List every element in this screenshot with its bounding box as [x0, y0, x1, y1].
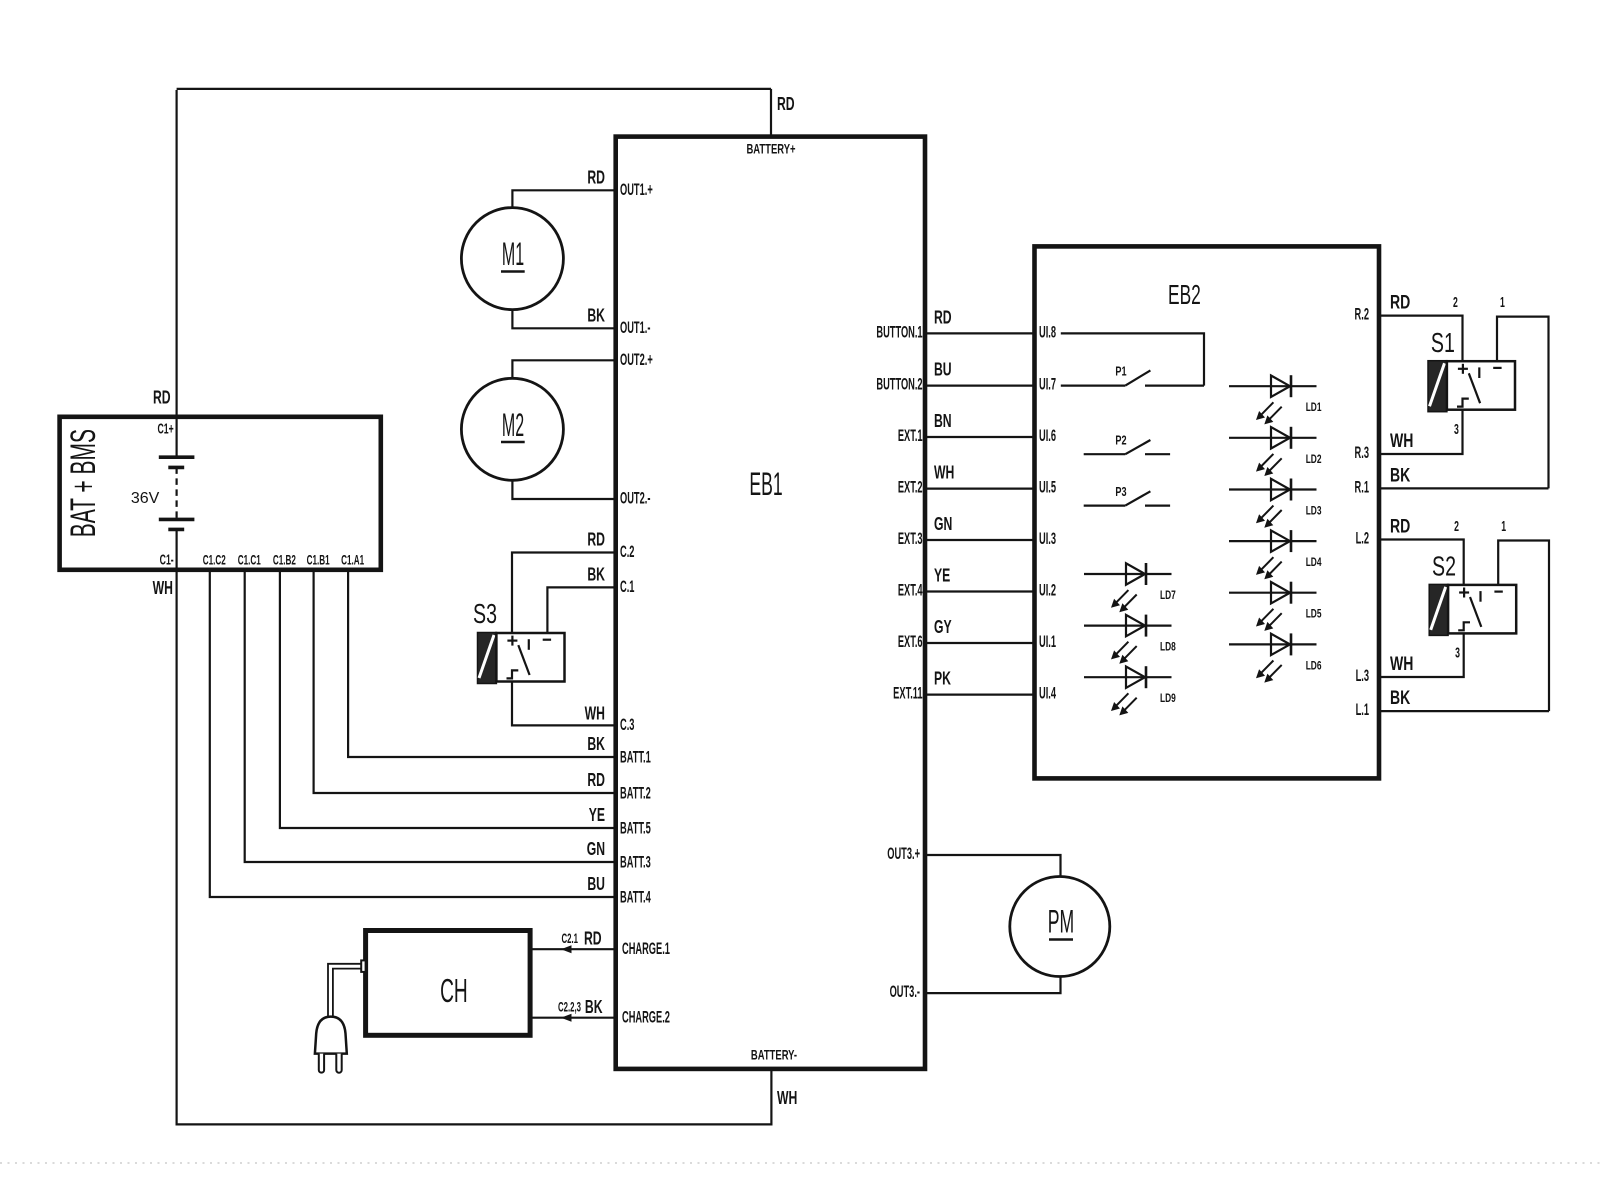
svg-text:LD5: LD5	[1306, 607, 1322, 621]
svg-text:R.1: R.1	[1355, 478, 1369, 496]
pin label L.3	[1356, 666, 1369, 684]
pin label BATTERY-	[751, 1048, 797, 1063]
LED LD1	[1229, 375, 1322, 424]
label GY EXT.6	[934, 618, 952, 638]
svg-text:LD3: LD3	[1306, 504, 1322, 518]
wire top rail RD horizontal	[177, 88, 771, 90]
pin label CHARGE.1	[622, 939, 670, 957]
label EB2	[1168, 279, 1201, 310]
label PK EXT.11	[934, 669, 951, 689]
wire OUT1+ RD to M1	[512, 190, 615, 208]
label RD top rail	[777, 95, 795, 115]
wire R.3 WH	[1379, 410, 1463, 454]
svg-text:L.3: L.3	[1356, 666, 1369, 684]
pin label C.1	[620, 577, 634, 595]
label S3	[473, 598, 497, 629]
pin label UI.6	[1039, 426, 1056, 444]
svg-text:EXT.1: EXT.1	[898, 426, 923, 444]
label BN EXT.1	[934, 412, 952, 432]
pin label OUT2.+	[620, 350, 653, 368]
label BK OUT1-	[587, 306, 605, 326]
battery box BAT+BMS	[60, 417, 381, 570]
pin label OUT3.+	[887, 844, 920, 862]
svg-text:P2: P2	[1115, 434, 1126, 448]
pin label L.2	[1356, 529, 1369, 547]
svg-text:CHARGE.1: CHARGE.1	[622, 939, 670, 957]
svg-text:CHARGE.2: CHARGE.2	[622, 1008, 670, 1026]
LED LD7	[1084, 563, 1176, 612]
motor M2	[461, 378, 563, 480]
wire EXT.2 to UI.5 (WH)	[925, 488, 1035, 490]
label CH	[440, 973, 468, 1010]
svg-text:EB1: EB1	[749, 468, 782, 503]
switch S2 body	[1429, 584, 1516, 635]
svg-text:3: 3	[1455, 644, 1460, 661]
wire L.3 WH	[1379, 633, 1464, 677]
wire BUTTON.2 to UI.7 (BU)	[925, 385, 1035, 387]
LED LD3	[1229, 479, 1322, 528]
wire C.1 BK to S3 -	[547, 587, 615, 633]
svg-text:C1.C1: C1.C1	[238, 553, 261, 568]
svg-text:C1-: C1-	[160, 551, 174, 568]
svg-text:OUT1.+: OUT1.+	[620, 180, 653, 198]
label WH C.3	[585, 704, 605, 724]
svg-text:S3: S3	[473, 598, 497, 629]
label RD BATT.2	[587, 771, 605, 791]
label BAT + BMS (rotated)	[65, 429, 104, 537]
label RD BUTTON.1	[934, 308, 952, 328]
wire OUT1- BK from M1	[512, 309, 615, 329]
label YE BATT.5	[589, 806, 605, 826]
label RD C.2	[587, 530, 605, 550]
svg-text:36V: 36V	[131, 490, 160, 507]
svg-text:UI.7: UI.7	[1039, 375, 1056, 393]
battery cell symbol 36V	[159, 417, 195, 570]
svg-text:BU: BU	[587, 875, 605, 895]
pin label EXT.6	[898, 632, 923, 650]
svg-text:RD: RD	[584, 929, 602, 949]
svg-text:BATTERY-: BATTERY-	[751, 1048, 797, 1063]
wire pin1 L.	[1498, 541, 1549, 712]
wire top rail drop into EB1 BATTERY+	[770, 89, 772, 137]
svg-text:EXT.6: EXT.6	[898, 632, 923, 650]
svg-text:UI.3: UI.3	[1039, 529, 1056, 547]
label BK CHARGE.2	[585, 998, 603, 1018]
pin label BATT.3	[620, 853, 651, 871]
svg-text:PM: PM	[1048, 905, 1074, 940]
label EB1	[749, 468, 782, 503]
svg-text:C2.2,3: C2.2,3	[558, 1001, 581, 1016]
pin label R.1	[1355, 478, 1369, 496]
pin label BATTERY+	[746, 142, 795, 157]
label BU BATT.4	[587, 875, 605, 895]
svg-text:BATTERY+: BATTERY+	[746, 142, 795, 157]
pin label UI.3	[1039, 529, 1056, 547]
label S1	[1431, 328, 1455, 359]
label RD R.2	[1390, 291, 1410, 313]
svg-text:GN: GN	[587, 840, 605, 860]
motor M1	[461, 208, 563, 310]
svg-text:RD: RD	[934, 308, 952, 328]
svg-text:RD: RD	[1390, 515, 1410, 537]
decorative page rule	[0, 1162, 1600, 1164]
display box EB2	[1035, 246, 1380, 778]
svg-text:PK: PK	[934, 669, 951, 689]
svg-text:P1: P1	[1115, 365, 1126, 379]
plug connector stub	[361, 960, 365, 972]
pin label BATT.5	[620, 819, 651, 837]
wire BATT.1 BK from battery	[348, 570, 616, 757]
svg-text:EXT.4: EXT.4	[898, 581, 923, 599]
svg-text:OUT1.-: OUT1.-	[620, 318, 650, 336]
label RD at battery C1+	[153, 388, 171, 408]
svg-text:LD8: LD8	[1160, 640, 1176, 654]
label GN EXT.3	[934, 515, 952, 535]
pin label C1-	[160, 551, 174, 568]
svg-text:BK: BK	[1390, 464, 1411, 486]
pin label UI.8	[1039, 323, 1056, 341]
pin label UI.1	[1039, 632, 1056, 650]
svg-text:LD4: LD4	[1306, 556, 1322, 570]
svg-text:LD1: LD1	[1306, 401, 1322, 415]
LED LD9	[1084, 666, 1176, 715]
svg-text:2: 2	[1453, 294, 1458, 311]
pin label BATT.4	[620, 888, 651, 906]
svg-text:YE: YE	[934, 566, 950, 586]
svg-text:RD: RD	[153, 388, 171, 408]
wire CHARGE.2 BK	[530, 1017, 616, 1019]
svg-text:C2.1: C2.1	[561, 932, 578, 947]
pin label EXT.11	[893, 684, 922, 702]
svg-text:YE: YE	[589, 806, 605, 826]
svg-text:BK: BK	[587, 306, 605, 326]
svg-text:C1+: C1+	[158, 420, 174, 437]
svg-text:OUT3.-: OUT3.-	[890, 982, 920, 1000]
svg-text:EXT.11: EXT.11	[893, 684, 922, 702]
pin label EXT.1	[898, 426, 923, 444]
pin label BUTTON.1	[876, 323, 922, 341]
svg-text:C1.C2: C1.C2	[203, 553, 226, 568]
switch P2	[1084, 434, 1170, 454]
svg-text:GN: GN	[934, 515, 952, 535]
wire EXT.6 to UI.1 (GY)	[925, 642, 1035, 644]
wire BATT.5 YE from battery	[280, 570, 616, 828]
svg-text:WH: WH	[585, 704, 605, 724]
wire L.2 RD	[1379, 540, 1464, 585]
pin label UI.5	[1039, 478, 1056, 496]
svg-text:BK: BK	[587, 735, 605, 755]
wire R.2 RD	[1379, 316, 1463, 362]
wire C.3 WH from S3	[512, 682, 616, 726]
label C2.2,3	[558, 1001, 581, 1016]
wire BUTTON.1 to UI.8 (RD)	[925, 332, 1035, 334]
svg-text:UI.6: UI.6	[1039, 426, 1056, 444]
pin label UI.4	[1039, 684, 1056, 702]
label BK BATT.1	[587, 735, 605, 755]
svg-text:S1: S1	[1431, 328, 1455, 359]
wire OUT2- from M2	[512, 479, 615, 499]
label S2	[1432, 551, 1456, 582]
svg-text:C.3: C.3	[620, 715, 634, 733]
svg-text:3: 3	[1454, 420, 1459, 437]
svg-text:EXT.2: EXT.2	[898, 478, 923, 496]
svg-text:UI.2: UI.2	[1039, 581, 1056, 599]
wire R.1 BK	[1379, 487, 1549, 489]
svg-text:WH: WH	[777, 1089, 797, 1109]
label WH EXT.2	[934, 463, 954, 483]
svg-text:C.1: C.1	[620, 577, 634, 595]
pin label BATT.2	[620, 784, 651, 802]
pin label OUT1.+	[620, 180, 653, 198]
pin label OUT1.-	[620, 318, 650, 336]
svg-text:RD: RD	[777, 95, 795, 115]
pin label 2 (S2)	[1454, 518, 1459, 535]
label BU BUTTON.2	[934, 360, 952, 380]
wire OUT3- from PM	[925, 977, 1061, 994]
svg-text:RD: RD	[1390, 291, 1410, 313]
svg-text:C1.A1: C1.A1	[341, 553, 364, 568]
arrow CHARGE.2	[561, 1014, 572, 1022]
pin label R.3	[1355, 443, 1369, 461]
svg-text:RD: RD	[587, 168, 605, 188]
svg-text:RD: RD	[587, 771, 605, 791]
pin label C1.B2	[273, 553, 296, 568]
svg-text:LD7: LD7	[1160, 588, 1176, 602]
svg-text:BATT.5: BATT.5	[620, 819, 651, 837]
LED LD8	[1084, 615, 1176, 664]
svg-text:BAT + BMS: BAT + BMS	[65, 429, 104, 537]
svg-text:OUT2.+: OUT2.+	[620, 350, 653, 368]
wire battery C1+ vertical (RD) to top rail	[176, 90, 178, 417]
pin label EXT.4	[898, 581, 923, 599]
pin label BUTTON.2	[876, 375, 922, 393]
svg-text:LD9: LD9	[1160, 692, 1176, 706]
wire L.1 BK	[1379, 710, 1549, 712]
motor PM	[1010, 877, 1110, 977]
label BK C.1	[587, 565, 605, 585]
pin label OUT2.-	[620, 489, 650, 507]
wire C1- WH bottom rail	[177, 570, 772, 1125]
pin label EXT.2	[898, 478, 923, 496]
pin label UI.2	[1039, 581, 1056, 599]
svg-text:BK: BK	[1390, 687, 1411, 709]
wire BATT.2 RD from battery	[314, 570, 616, 793]
plug cord	[328, 964, 361, 1017]
svg-text:BU: BU	[934, 360, 952, 380]
pin label L.1	[1356, 700, 1369, 718]
pin label C1.B1	[307, 553, 330, 568]
wire UI.8 internal	[1061, 333, 1204, 385]
svg-text:UI.5: UI.5	[1039, 478, 1056, 496]
LED LD2	[1229, 427, 1322, 476]
wire EXT.11 to UI.4 (PK)	[925, 693, 1035, 695]
label RD CHARGE.1	[584, 929, 602, 949]
pin label 3 (S2)	[1455, 644, 1460, 661]
label YE EXT.4	[934, 566, 950, 586]
svg-text:LD6: LD6	[1306, 659, 1322, 673]
svg-text:WH: WH	[934, 463, 954, 483]
svg-text:BK: BK	[585, 998, 603, 1018]
svg-text:EXT.3: EXT.3	[898, 529, 923, 547]
pin label BATT.1	[620, 748, 651, 766]
LED LD5	[1229, 582, 1322, 631]
plug body	[315, 1017, 347, 1054]
pin label UI.7	[1039, 375, 1056, 393]
svg-text:LD2: LD2	[1306, 452, 1322, 466]
wire EXT.4 to UI.2 (YE)	[925, 590, 1035, 592]
svg-text:OUT3.+: OUT3.+	[887, 844, 920, 862]
pin label C1.A1	[341, 553, 364, 568]
wire OUT3+ to PM	[925, 855, 1061, 877]
pin label R.2	[1355, 305, 1369, 323]
switch P1	[1061, 365, 1204, 386]
svg-text:UI.1: UI.1	[1039, 632, 1056, 650]
svg-text:C.2: C.2	[620, 542, 634, 560]
arrow CHARGE.1	[561, 945, 572, 953]
wire BATT.4 BU from battery	[210, 570, 616, 897]
svg-text:R.2: R.2	[1355, 305, 1369, 323]
svg-text:C1.B1: C1.B1	[307, 553, 330, 568]
svg-text:UI.4: UI.4	[1039, 684, 1056, 702]
charger box CH	[366, 931, 530, 1036]
pin label C1.C2	[203, 553, 226, 568]
svg-text:S2: S2	[1432, 551, 1456, 582]
label WH under battery	[153, 579, 173, 599]
svg-text:CH: CH	[440, 973, 468, 1010]
svg-text:BATT.3: BATT.3	[620, 853, 651, 871]
svg-text:1: 1	[1501, 518, 1506, 535]
wire EXT.1 to UI.6 (BN)	[925, 436, 1035, 438]
svg-text:BATT.1: BATT.1	[620, 748, 651, 766]
svg-text:BATT.4: BATT.4	[620, 888, 651, 906]
label BK L.1	[1390, 687, 1411, 709]
svg-text:1: 1	[1500, 294, 1505, 311]
svg-text:C1.B2: C1.B2	[273, 553, 296, 568]
svg-text:2: 2	[1454, 518, 1459, 535]
svg-text:EB2: EB2	[1168, 279, 1201, 310]
pin label C.2	[620, 542, 634, 560]
LED LD6	[1229, 633, 1322, 682]
wire OUT2+ to M2	[512, 360, 615, 379]
pin label OUT3.-	[890, 982, 920, 1000]
label RD OUT1+	[587, 168, 605, 188]
svg-text:L.1: L.1	[1356, 700, 1369, 718]
svg-text:GY: GY	[934, 618, 952, 638]
wire BATT.3 GN from battery	[245, 570, 616, 862]
switch P3	[1084, 486, 1170, 506]
plug prong right	[336, 1054, 341, 1073]
label WH L.3	[1390, 653, 1413, 675]
svg-text:BK: BK	[587, 565, 605, 585]
svg-text:RD: RD	[587, 530, 605, 550]
pin label 3 (S1)	[1454, 420, 1459, 437]
svg-text:UI.8: UI.8	[1039, 323, 1056, 341]
wire CHARGE.1 RD	[530, 948, 616, 950]
svg-text:P3: P3	[1115, 486, 1126, 500]
svg-text:WH: WH	[153, 579, 173, 599]
pin label 1 (S1)	[1500, 294, 1505, 311]
svg-text:M1: M1	[502, 237, 524, 272]
svg-text:WH: WH	[1390, 653, 1413, 675]
label WH R.3	[1390, 430, 1413, 452]
pin label C.3	[620, 715, 634, 733]
svg-text:BUTTON.2: BUTTON.2	[876, 375, 922, 393]
LED LD4	[1229, 530, 1322, 579]
pin label CHARGE.2	[622, 1008, 670, 1026]
pin label 2 (S1)	[1453, 294, 1458, 311]
label WH at BATTERY-	[777, 1089, 797, 1109]
pin label C1+	[158, 420, 174, 437]
svg-text:WH: WH	[1390, 430, 1413, 452]
svg-text:BATT.2: BATT.2	[620, 784, 651, 802]
controller box EB1	[616, 137, 925, 1069]
label BK R.1	[1390, 464, 1411, 486]
svg-text:M2: M2	[502, 408, 524, 443]
plug prong left	[319, 1054, 324, 1073]
svg-text:R.3: R.3	[1355, 443, 1369, 461]
svg-text:BN: BN	[934, 412, 952, 432]
switch S1 body	[1428, 361, 1515, 412]
svg-text:OUT2.-: OUT2.-	[620, 489, 650, 507]
svg-text:BUTTON.1: BUTTON.1	[876, 323, 922, 341]
label C2.1	[561, 932, 578, 947]
pin label EXT.3	[898, 529, 923, 547]
wire pin1 R.	[1497, 317, 1549, 489]
svg-text:L.2: L.2	[1356, 529, 1369, 547]
wire EXT.3 to UI.3 (GN)	[925, 539, 1035, 541]
wire C.2 RD to S3 +	[512, 553, 616, 634]
pin label 1 (S2)	[1501, 518, 1506, 535]
label 36V	[131, 490, 160, 507]
switch S3 body	[478, 633, 565, 684]
pin label C1.C1	[238, 553, 261, 568]
label GN BATT.3	[587, 840, 605, 860]
label RD L.2	[1390, 515, 1410, 537]
